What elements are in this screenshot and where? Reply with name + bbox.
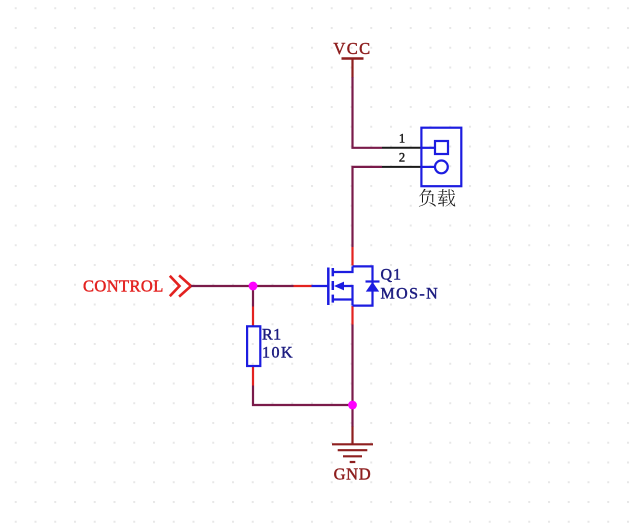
R1 body [247, 326, 260, 366]
svg-text:2: 2 [399, 151, 405, 165]
wire pin2 to drain of Q1 [353, 167, 383, 247]
connector P1 load [382, 128, 461, 207]
drain pin [351, 247, 353, 266]
resistor R1 [247, 307, 260, 386]
wire junction down to R1 [252, 286, 254, 307]
svg-text:Q1: Q1 [381, 266, 402, 283]
wire CONTROL to gate pin [191, 285, 294, 287]
svg-text:R1: R1 [262, 327, 282, 344]
junction node at gate/R1 [249, 282, 258, 291]
pin 2 lead [382, 166, 421, 168]
wire VCC net: vertical down and over to pin 1 [353, 77, 383, 148]
svg-text:GND: GND [334, 464, 372, 483]
mosfet body [312, 266, 380, 305]
connector body [421, 128, 461, 187]
connector label 负载 [419, 189, 455, 207]
port CONTROL chevrons [170, 275, 191, 296]
svg-text:CONTROL: CONTROL [83, 277, 164, 296]
transistor Q1 (N-MOSFET) [294, 247, 380, 325]
R1 bottom pin [252, 366, 254, 386]
wire junction to ground stem [351, 405, 353, 427]
body arrow [334, 282, 344, 291]
svg-text:1: 1 [399, 131, 405, 145]
svg-text:10K: 10K [262, 345, 294, 362]
wire source to GND node [351, 325, 353, 406]
junction node at GND [348, 401, 357, 410]
power symbol VCC [342, 59, 364, 78]
svg-text:MOS-N: MOS-N [381, 286, 440, 303]
source pin [351, 306, 353, 325]
body diode triangle [366, 282, 379, 292]
svg-text:VCC: VCC [333, 39, 371, 58]
gate pin [294, 285, 312, 287]
wire R1 bottom to GND node [253, 386, 353, 406]
ground symbol [332, 427, 373, 463]
pin 1 lead [382, 147, 421, 149]
R1 top pin [252, 307, 254, 327]
